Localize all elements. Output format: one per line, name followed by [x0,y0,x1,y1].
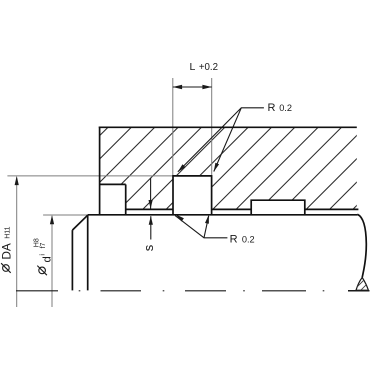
svg-text:f7: f7 [40,242,47,248]
svg-text:s: s [141,244,156,251]
svg-text:H11: H11 [4,226,11,238]
svg-text:R 0.2: R 0.2 [268,102,292,114]
svg-text:L +0.2: L +0.2 [190,61,219,73]
svg-text:R 0.2: R 0.2 [230,233,255,245]
svg-text:DA: DA [0,243,13,260]
svg-text:d: d [42,256,54,262]
